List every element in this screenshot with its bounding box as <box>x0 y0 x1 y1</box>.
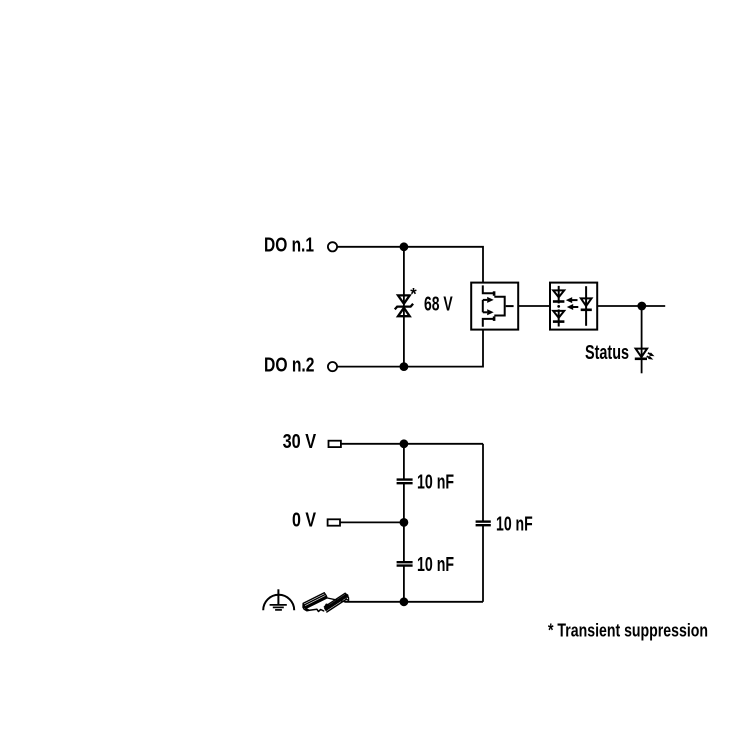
near lip bottom edge <box>327 598 348 612</box>
wire middle vertical segments <box>403 444 405 480</box>
diode opto LED2 <box>553 311 564 318</box>
arrow opto light 2 <box>573 306 578 308</box>
node junction DO n.1 / TVS <box>400 242 409 251</box>
node junction 30V <box>400 439 409 448</box>
wire FET output stub <box>506 305 514 307</box>
svg-text:30 V: 30 V <box>283 431 317 453</box>
far lip right end face <box>324 593 327 598</box>
near lip dark band <box>324 594 347 611</box>
wire 30 V rail <box>341 443 483 445</box>
far lip left end cap <box>303 603 306 606</box>
far lip top edges <box>303 593 324 604</box>
left foot <box>303 606 310 611</box>
wire FET middle link <box>482 300 484 312</box>
svg-text:DO n.2: DO n.2 <box>264 354 315 377</box>
node junction bottom <box>400 597 409 606</box>
wire DO n.2 rail <box>337 330 483 367</box>
capacitor C1 10 nF <box>397 478 413 480</box>
wire MOSFET box to opto box <box>518 305 550 307</box>
wire FET bottom source lead <box>483 319 494 327</box>
node opto column dot <box>557 305 560 308</box>
end-cut edge to wire <box>327 598 345 602</box>
wire FET bottom contact bar <box>493 316 496 321</box>
svg-text:* Transient suppression: * Transient suppression <box>548 619 708 640</box>
arrow FET bottom <box>483 311 488 313</box>
terminal DO n.1 <box>328 242 337 251</box>
terminal 0 V <box>328 519 340 525</box>
near lip left end cap <box>325 604 329 611</box>
bottom edge with notch <box>309 609 323 611</box>
svg-text:0 V: 0 V <box>292 510 317 532</box>
diode TVS suppressor 68 V <box>395 295 413 316</box>
arrow LED light 2 <box>647 356 650 358</box>
svg-text:10 nF: 10 nF <box>417 554 454 576</box>
wire opto LED column <box>558 286 560 304</box>
node junction 0V <box>400 518 409 527</box>
near lip right end face <box>346 596 349 600</box>
wire FET gate bracket <box>494 297 504 316</box>
capacitor C3 10 nF <box>476 520 491 522</box>
arrow opto light 1 <box>572 299 578 301</box>
wire right branch <box>482 444 484 522</box>
op-amp U2 optocoupler box <box>550 283 597 330</box>
transistor U1 MOSFET output box <box>471 283 518 330</box>
ground functional earth symbol <box>263 589 294 610</box>
node junction DO n.2 / TVS <box>400 362 409 371</box>
svg-text:Status: Status <box>585 342 629 364</box>
svg-text:10 nF: 10 nF <box>496 514 533 536</box>
wire bottom rail <box>345 601 484 603</box>
wire status branch <box>641 306 643 373</box>
arrow FET top <box>483 299 488 301</box>
node junction status <box>637 302 646 311</box>
svg-text:DO n.1: DO n.1 <box>264 234 314 257</box>
wire FET top contact bar <box>493 291 496 296</box>
diode opto LED1 <box>553 290 564 297</box>
near lip right end cap <box>345 593 348 597</box>
wire 0 V rail <box>340 521 404 523</box>
svg-text:68 V: 68 V <box>424 294 453 316</box>
svg-text:*: * <box>410 285 417 303</box>
diode opto photodiode <box>581 298 592 306</box>
terminal 30 V <box>329 441 341 447</box>
wire DO n.1 rail <box>337 247 483 283</box>
terminal DO n.2 <box>328 362 337 371</box>
near lip top edge <box>324 593 345 607</box>
svg-text:10 nF: 10 nF <box>417 472 454 494</box>
LED status <box>635 349 655 360</box>
wire TVS branch vertical <box>403 247 405 367</box>
wire opto box to output <box>597 305 665 307</box>
capacitor C2 10 nF <box>397 561 413 563</box>
wire opto photodiode column <box>585 286 587 326</box>
DIN rail carrier symbol <box>303 593 349 612</box>
far lip dark band <box>305 596 327 609</box>
arrow LED light 1 <box>648 353 651 355</box>
wire FET top source lead <box>483 285 494 293</box>
